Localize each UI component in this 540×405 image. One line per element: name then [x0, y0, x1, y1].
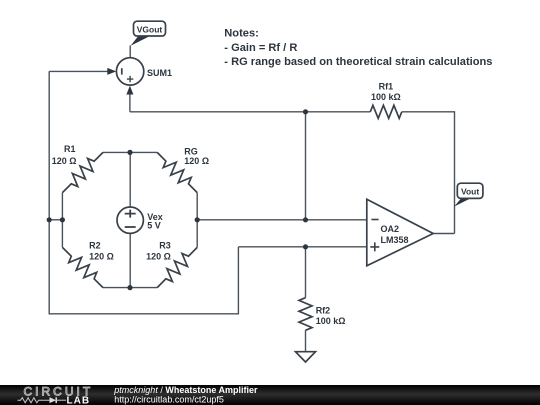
resistor R2	[62, 240, 113, 287]
wire VGout stem to SUM1 top	[129, 46, 131, 58]
wire top feedback run (right of Rf1) and right vertical	[402, 112, 455, 234]
node bridge top	[127, 150, 132, 155]
wire left loop: left vertical, bottom run, up to plus-input level	[49, 71, 238, 313]
svg-text:Rf1: Rf1	[379, 82, 394, 92]
wire op-amp plus input	[238, 246, 366, 248]
net flag VGout	[131, 21, 166, 46]
wire plus input down to Rf2	[305, 247, 307, 298]
node bridge left	[60, 217, 65, 222]
svg-text:120 Ω: 120 Ω	[184, 156, 209, 166]
resistor Rf2	[299, 298, 345, 331]
wire Vex top stem	[129, 152, 131, 207]
wire bridge bottom segment	[103, 287, 157, 289]
svg-text:120 Ω: 120 Ω	[52, 156, 77, 166]
op-amp OA2 LM358	[367, 199, 433, 265]
resistor RG	[157, 147, 209, 193]
svg-text:RG: RG	[184, 147, 198, 157]
node bridge right	[195, 217, 200, 222]
svg-text:LM358: LM358	[381, 235, 409, 245]
svg-text:Rf2: Rf2	[316, 305, 331, 315]
junction plus input	[303, 244, 308, 249]
wire bridge left node to left vertical	[49, 219, 62, 221]
wire SUM1 left input	[49, 70, 108, 72]
svg-text:ptmcknight / Wheatstone Amplif: ptmcknight / Wheatstone Amplifier	[113, 385, 258, 395]
svg-text:Vout: Vout	[461, 187, 479, 197]
arrow into SUM1 left input	[107, 68, 116, 75]
wire op-amp minus input from bridge right node	[197, 219, 367, 221]
svg-text:VGout: VGout	[137, 24, 163, 34]
wire top feedback run (left of Rf1)	[130, 111, 370, 113]
note text Notes	[224, 28, 492, 68]
svg-text:R1: R1	[64, 144, 76, 154]
svg-text:5 V: 5 V	[147, 221, 161, 231]
ground	[296, 352, 316, 362]
voltage source Vex	[117, 207, 163, 233]
net flag Vout	[454, 183, 483, 206]
svg-text:http://circuitlab.com/ct2upf5: http://circuitlab.com/ct2upf5	[114, 395, 224, 405]
svg-text:SUM1: SUM1	[147, 68, 172, 78]
resistor R1	[52, 144, 103, 193]
svg-text:100 kΩ: 100 kΩ	[371, 92, 401, 102]
resistor R3	[146, 240, 197, 287]
wire bridge left corner	[61, 193, 63, 248]
arrow into SUM1 bottom input	[126, 86, 133, 95]
svg-text:R3: R3	[159, 240, 171, 250]
node bridge bottom	[127, 285, 132, 290]
summing block SUM1	[116, 58, 172, 85]
resistor Rf1	[370, 82, 402, 119]
wire Rf1 junction down to minus input	[305, 112, 307, 220]
CircuitLab logo	[18, 384, 94, 405]
svg-text:100 kΩ: 100 kΩ	[316, 316, 346, 326]
wire bridge right corner	[196, 193, 198, 248]
wire SUM1 bottom stem	[129, 94, 131, 112]
junction left rail	[47, 217, 52, 222]
junction Rf1 top	[303, 109, 308, 114]
svg-text:120 Ω: 120 Ω	[89, 251, 114, 261]
svg-text:- RG range based on theoretica: - RG range based on theoretical strain c…	[224, 56, 492, 68]
svg-text:OA2: OA2	[381, 224, 400, 234]
svg-text:120 Ω: 120 Ω	[146, 251, 171, 261]
wire Vex bottom stem	[129, 233, 131, 287]
svg-text:R2: R2	[89, 240, 101, 250]
svg-text:LAB: LAB	[67, 396, 91, 405]
junction minus input	[303, 217, 308, 222]
wire op-amp output	[433, 233, 454, 235]
wire bridge top segment	[103, 151, 157, 153]
svg-text:- Gain = Rf / R: - Gain = Rf / R	[224, 42, 297, 54]
wire Rf2 to ground	[305, 330, 307, 351]
svg-text:Notes:: Notes:	[224, 28, 259, 40]
